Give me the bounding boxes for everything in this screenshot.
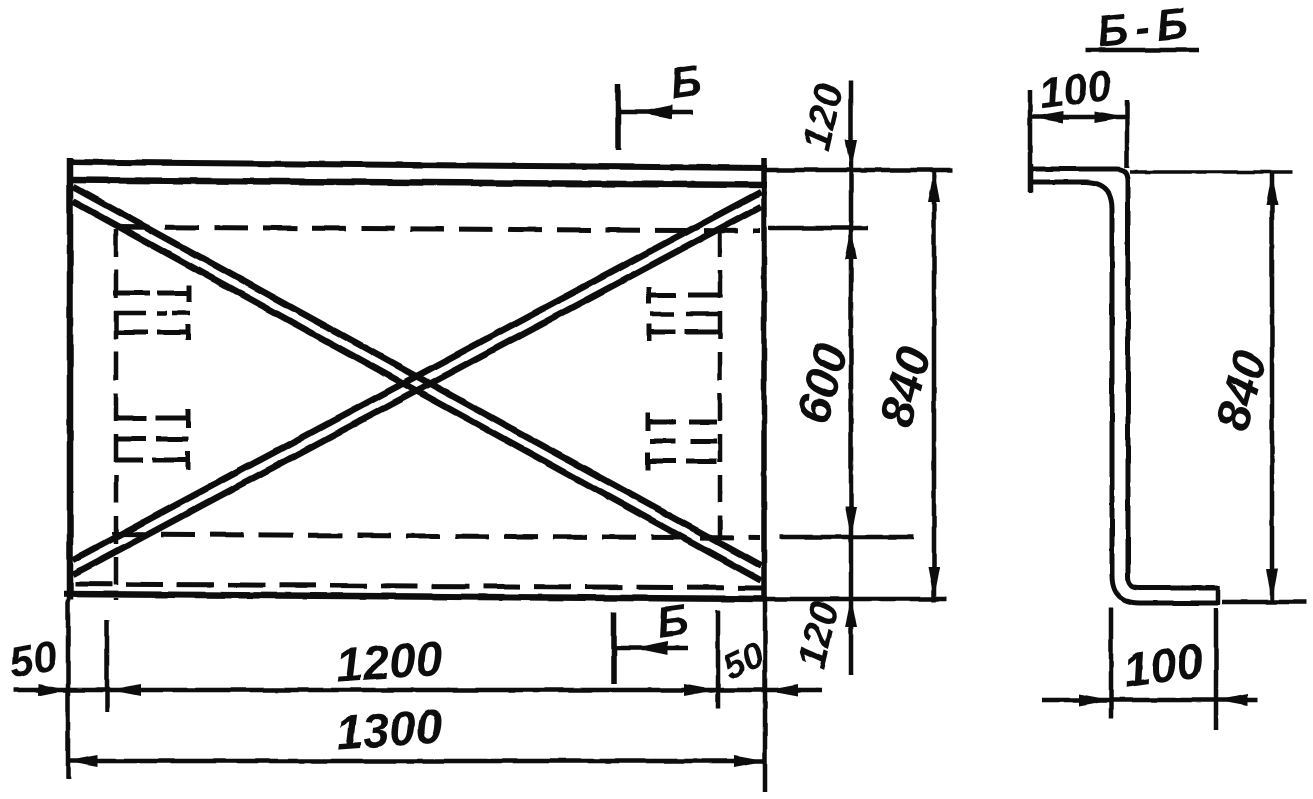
arrows of section bottom 100 bbox=[1079, 694, 1111, 706]
dimension line vertical x=851 (120/600/120) bbox=[849, 81, 854, 675]
diagonal brace A lower line bbox=[73, 202, 761, 581]
dimension line vertical x=934 (840) bbox=[932, 170, 937, 602]
mesh mark group left-lower row1 bbox=[114, 409, 188, 428]
section mark B top arrow line bbox=[620, 110, 693, 115]
section 840 top extension line bbox=[1130, 170, 1293, 174]
section bottom 100 extension right x=1216 bbox=[1214, 608, 1219, 730]
mesh mark group left-upper row2 bbox=[114, 311, 190, 316]
svg-text:100: 100 bbox=[1036, 61, 1114, 119]
arrows of section top 100 bbox=[1031, 111, 1063, 123]
section top dim extension left x=1030 bbox=[1028, 90, 1033, 192]
diagonal brace B lower line bbox=[73, 207, 761, 575]
frame top inner line bbox=[70, 180, 767, 185]
frame right edge bbox=[761, 158, 767, 601]
mesh mark group right-lower row1 bbox=[648, 413, 717, 431]
section bottom 100 extension left x=1111 bbox=[1109, 608, 1114, 718]
right edge extension line bbox=[763, 601, 768, 792]
right extension of bottom frame line bbox=[767, 597, 946, 602]
section top dimension line 100 bbox=[1030, 115, 1127, 120]
mesh mark group right-lower row2 bbox=[650, 439, 717, 444]
mesh mark group right-upper row3 bbox=[649, 324, 720, 341]
section title underline bbox=[1085, 48, 1199, 53]
section bottom dimension line 100 bbox=[1042, 698, 1258, 703]
right extension line top (y=170) bbox=[766, 168, 953, 173]
right extension line at 600 bottom (y=537) bbox=[780, 535, 914, 540]
bottom dimension line chain y=690 bbox=[14, 688, 822, 693]
hidden dashed line bottom bbox=[75, 584, 762, 588]
mesh mark group right-upper row1 bbox=[649, 287, 722, 304]
bottom dimension line 1300 y=761 bbox=[66, 759, 766, 764]
arrow of section mark B top bbox=[638, 105, 672, 119]
frame bottom line bbox=[64, 594, 767, 599]
frame top outer line bbox=[67, 162, 767, 168]
section mark B top vertical bbox=[615, 84, 621, 150]
channel profile outer surface bbox=[1031, 169, 1218, 588]
arrows of 120 top dimension bbox=[845, 140, 857, 170]
bottom extension line x=718 bbox=[716, 610, 721, 708]
mesh mark group right-upper row2 bbox=[650, 312, 720, 317]
hidden dashed line top bbox=[116, 227, 760, 231]
arrows of dimension chain y=690 bbox=[38, 105, 940, 767]
arrows of section 840 bbox=[1266, 173, 1278, 205]
channel left tip end cap bbox=[1029, 164, 1034, 193]
section 840 dimension line bbox=[1270, 172, 1275, 602]
arrows of 840 dimension bbox=[928, 170, 940, 202]
section 840 bottom extension line bbox=[1222, 600, 1307, 605]
mesh mark group left-upper row3 bbox=[115, 324, 188, 340]
diagonal brace A upper line (TL to BR) bbox=[73, 187, 761, 566]
channel profile inner surface bbox=[1031, 182, 1218, 603]
mesh mark group right-lower row3 bbox=[648, 452, 717, 470]
mesh mark group left-lower row3 bbox=[115, 451, 188, 470]
hidden dashed vertical left bbox=[114, 229, 119, 600]
arrows of 120 bottom dimension bbox=[845, 597, 857, 627]
channel right tip end cap bbox=[1216, 586, 1221, 605]
hidden dashed line lower-mid bbox=[112, 534, 760, 538]
mesh mark group left-upper row1 bbox=[113, 285, 190, 302]
arrow of section mark B bottom bbox=[634, 641, 668, 655]
section mark B bottom vertical bbox=[611, 612, 617, 684]
mesh mark group left-lower row2 bbox=[114, 437, 188, 442]
section mark B bottom arrow line bbox=[616, 646, 688, 651]
svg-text:1300: 1300 bbox=[334, 700, 445, 760]
section top dim extension right x=1127 bbox=[1125, 100, 1130, 168]
hidden dashed vertical right bbox=[718, 229, 723, 540]
arrows of 1300 dimension bbox=[66, 755, 98, 767]
svg-text:1200: 1200 bbox=[334, 632, 445, 692]
arrows of 600 dimension bbox=[845, 507, 857, 537]
right extension line at dashed level (y=228) bbox=[768, 226, 868, 231]
diagonal brace B upper line (BL to TR) bbox=[73, 192, 761, 560]
left edge extension line bbox=[66, 600, 71, 779]
frame left edge bbox=[67, 158, 74, 600]
bottom extension line x=107 bbox=[105, 620, 110, 712]
svg-text:50: 50 bbox=[5, 632, 61, 688]
svg-text:100: 100 bbox=[1120, 635, 1207, 699]
